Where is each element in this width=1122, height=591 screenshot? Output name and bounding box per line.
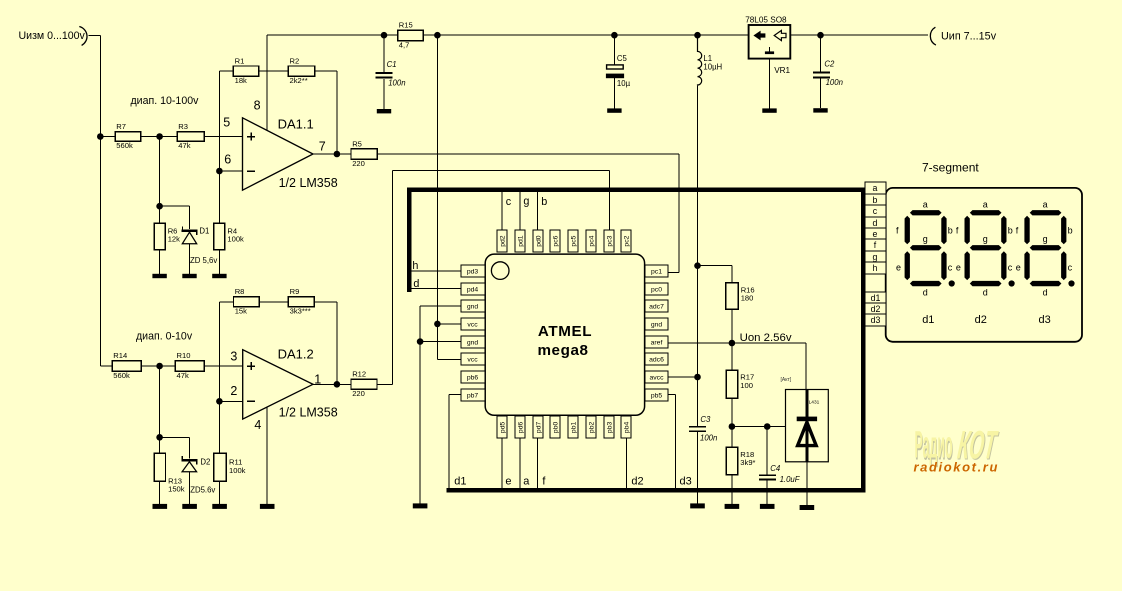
display pin f [865, 239, 886, 251]
svg-text:100: 100 [740, 381, 753, 390]
resistor R1 [233, 56, 258, 85]
svg-text:mega8: mega8 [537, 342, 588, 359]
svg-text:3: 3 [230, 350, 237, 364]
svg-text:d: d [983, 287, 988, 297]
op-amp DA1.2 [230, 347, 337, 432]
pin pc4 top [586, 230, 596, 252]
svg-text:10µH: 10µH [703, 62, 722, 71]
ground C4 [760, 504, 775, 509]
svg-text:h: h [873, 263, 878, 273]
svg-text:c: c [948, 262, 953, 272]
display pin d [865, 217, 886, 228]
node C5 junction [611, 32, 618, 39]
wire C2 stem [820, 35, 822, 108]
svg-text:d: d [873, 218, 878, 228]
node DA1.2 output junction [334, 381, 341, 388]
wire pd4 to bus [412, 288, 462, 290]
wire VR1 ground lead [769, 59, 771, 109]
svg-text:150k: 150k [168, 485, 185, 494]
label f [542, 475, 546, 487]
svg-text:pc1: pc1 [651, 269, 662, 276]
svg-text:100k: 100k [227, 235, 244, 244]
wire DA1.1 output [313, 153, 351, 155]
svg-text:adc7: adc7 [649, 304, 664, 311]
wire C4 stem [766, 427, 768, 504]
wire input to corner [88, 35, 100, 37]
connector Uip supply [930, 27, 996, 45]
wire DA1.2 pin4 ground lead [266, 407, 268, 504]
label Uon 2.56v [740, 332, 792, 344]
svg-text:ZD 5,6v: ZD 5,6v [190, 256, 217, 265]
wire R4 riser [218, 171, 220, 223]
watermark radiokot.ru [914, 460, 1000, 475]
svg-text:C5: C5 [617, 54, 628, 63]
svg-text:C4: C4 [770, 464, 781, 473]
svg-text:g: g [983, 234, 988, 244]
svg-text:pb0: pb0 [552, 422, 559, 434]
svg-text:d3: d3 [871, 315, 881, 325]
regulator VR1 78L05 [745, 15, 790, 75]
svg-text:R5: R5 [352, 139, 362, 148]
pin pc1 right [645, 265, 668, 277]
node C2 junction [817, 32, 824, 39]
svg-text:radiokot.ru: radiokot.ru [914, 460, 1000, 475]
ground R18 [725, 504, 740, 509]
wire ref to TL431 [732, 426, 786, 428]
pin vcc left [461, 318, 485, 330]
svg-text:d2: d2 [975, 314, 987, 326]
node input/R7 junction [97, 133, 104, 140]
resistor R7 [115, 122, 141, 150]
wire R8-R9 [259, 301, 288, 303]
pin pc6 top [550, 230, 560, 252]
display pin g [865, 251, 886, 262]
svg-text:R3: R3 [178, 122, 188, 131]
node R14/R10 junction [156, 363, 163, 370]
svg-text:pc5: pc5 [570, 235, 577, 246]
node R15 right junction [434, 32, 441, 39]
svg-text:100n: 100n [700, 434, 717, 443]
svg-text:g: g [523, 195, 529, 207]
svg-text:pd7: pd7 [535, 422, 542, 434]
svg-text:15k: 15k [235, 307, 247, 316]
svg-text:a: a [983, 199, 988, 209]
wire R6 to ground [159, 250, 161, 274]
svg-text:180: 180 [741, 294, 754, 303]
label d3 [680, 475, 692, 487]
wire D1 to ground [189, 244, 191, 274]
pin pb4 bottom [621, 416, 631, 438]
svg-text:DA1.2: DA1.2 [278, 347, 314, 362]
display digit labels [922, 314, 1051, 326]
bus bottom [447, 488, 866, 493]
wire R8 left leg [219, 302, 233, 402]
svg-text:pd6: pd6 [517, 422, 524, 434]
svg-text:220: 220 [352, 159, 365, 168]
wire R14 row [141, 365, 243, 367]
wire to D1 [160, 206, 190, 229]
svg-text:Uon 2.56v: Uon 2.56v [740, 332, 792, 344]
svg-text:R1: R1 [235, 56, 245, 65]
svg-text:1.0uF: 1.0uF [780, 475, 801, 484]
wire R4 to ground [218, 250, 220, 274]
wire aref to Uon [668, 342, 732, 344]
wire to R16 [698, 266, 732, 283]
resistor R8 [234, 287, 260, 316]
svg-text:e: e [1016, 262, 1021, 272]
wire R9 to output [314, 302, 337, 385]
pin pb6 left [461, 371, 485, 383]
svg-text:pc4: pc4 [588, 235, 595, 246]
svg-text:220: 220 [352, 389, 365, 398]
wire segment c to pd2 [501, 192, 503, 230]
svg-text:C3: C3 [700, 415, 711, 424]
resistor R5 [351, 139, 377, 168]
svg-text:3k9*: 3k9* [740, 458, 755, 467]
svg-text:c: c [1068, 262, 1073, 272]
svg-text:D1: D1 [199, 226, 209, 235]
display pin a [865, 182, 886, 194]
label h [412, 260, 418, 272]
svg-text:R9: R9 [290, 287, 300, 296]
node R6/D1 junction [156, 203, 163, 210]
node DA1.1 pin6 junction [216, 168, 223, 175]
node DA1.2 pin2 junction [216, 398, 223, 405]
svg-text:C2: C2 [824, 60, 835, 69]
svg-text:pc3: pc3 [606, 235, 613, 246]
wire R17 to R18 [731, 398, 733, 447]
ground R4 [212, 274, 226, 278]
wire R18 to ground [731, 475, 733, 504]
svg-text:pd0: pd0 [535, 235, 542, 247]
wire 5V rail left section [267, 34, 749, 36]
label b [541, 196, 547, 208]
resistor R4 [214, 223, 244, 250]
svg-text:d1: d1 [922, 314, 934, 326]
svg-text:47k: 47k [177, 371, 189, 380]
svg-text:R15: R15 [399, 21, 413, 30]
node L1 junction [694, 32, 701, 39]
svg-text:pc0: pc0 [651, 287, 662, 294]
svg-text:gnd: gnd [467, 340, 479, 347]
svg-text:pd3: pd3 [467, 269, 479, 276]
svg-text:d3: d3 [680, 475, 692, 487]
pin pc0 right [645, 283, 668, 295]
svg-text:b: b [948, 226, 953, 236]
wire segment g to pd1 [519, 192, 521, 230]
svg-text:pd5: pd5 [499, 422, 506, 434]
pin pd6 bottom [515, 416, 525, 438]
svg-text:d: d [1043, 287, 1048, 297]
svg-text:pb1: pb1 [570, 422, 577, 434]
pin pb3 bottom [604, 416, 614, 438]
svg-text:adc6: adc6 [649, 357, 664, 364]
resistor R13 [154, 453, 185, 494]
ground C3 [690, 503, 705, 508]
svg-text:pb4: pb4 [623, 422, 630, 434]
svg-text:g: g [923, 234, 928, 244]
wire R11 riser [218, 401, 220, 453]
pin pd2 top [497, 230, 507, 252]
pin adc6 right [645, 353, 668, 365]
svg-text:18k: 18k [235, 76, 247, 85]
wire pb5 digit3 [668, 395, 675, 490]
node R7/R3 junction [156, 133, 163, 140]
wire to D2 [160, 437, 190, 458]
wire segment b to pd0 [537, 192, 539, 230]
wire R5 to pc1 [377, 154, 679, 273]
svg-text:pc2: pc2 [623, 235, 630, 246]
pin avcc right [645, 371, 668, 383]
svg-text:8: 8 [254, 98, 261, 112]
label d [413, 278, 419, 290]
svg-text:R2: R2 [290, 56, 300, 65]
wire Uon to TL431 [732, 343, 806, 390]
resistor R16 [726, 283, 755, 310]
ground C1 [377, 109, 391, 113]
wire R2 to output [315, 71, 337, 154]
bus left bracket [407, 187, 412, 292]
svg-text:gnd: gnd [467, 304, 479, 311]
display digit 2 [956, 199, 1015, 297]
ground VR1 [762, 108, 776, 112]
bus right vertical [861, 187, 866, 492]
svg-text:Uизм 0...100v: Uизм 0...100v [19, 30, 86, 42]
svg-text:2: 2 [230, 384, 237, 398]
wire R16 to Uon [731, 309, 733, 370]
svg-text:c: c [506, 196, 512, 208]
svg-text:7: 7 [319, 139, 326, 153]
svg-text:b: b [541, 196, 547, 208]
svg-text:pb6: pb6 [467, 375, 479, 382]
wire pd5 digit e [501, 438, 503, 490]
display pin d3 [865, 314, 886, 326]
capacitor C5 [606, 54, 631, 88]
svg-text:h: h [412, 260, 418, 272]
zener D1 [182, 226, 218, 265]
pin pd7 bottom [533, 416, 543, 438]
wire C5 stem [613, 35, 615, 108]
node DA1.1 output junction [334, 151, 341, 158]
pin gnd left [461, 300, 485, 312]
svg-text:d1: d1 [454, 475, 466, 487]
wire avcc to L1 line [668, 376, 697, 378]
svg-text:pd2: pd2 [499, 235, 506, 247]
wire input vertical [99, 36, 101, 366]
pin pc3 top [604, 230, 614, 252]
wire DA1.1 pin8 riser [266, 35, 268, 130]
ground D1 [182, 274, 196, 278]
svg-text:R14: R14 [113, 351, 127, 360]
ground R13 [153, 504, 168, 509]
svg-text:aref: aref [651, 340, 663, 347]
svg-text:pd4: pd4 [467, 287, 479, 294]
pin pc2 top [621, 230, 631, 252]
pin pd3 left [461, 265, 485, 277]
svg-text:e: e [873, 229, 878, 239]
svg-text:100n: 100n [388, 79, 405, 88]
label range 10-100v [131, 95, 200, 107]
label d1 [454, 475, 466, 487]
label e [505, 475, 511, 487]
svg-text:диап. 10-100v: диап. 10-100v [131, 95, 200, 107]
svg-text:avcc: avcc [650, 375, 665, 382]
wire R11 to ground [218, 481, 220, 504]
node R13/D2 junction [156, 434, 163, 441]
resistor R11 [214, 453, 246, 481]
label a [523, 475, 530, 487]
svg-text:3k3***: 3k3*** [290, 307, 311, 316]
svg-text:vcc: vcc [467, 322, 478, 329]
pin gnd left [461, 336, 485, 348]
pin pb1 bottom [568, 416, 578, 438]
svg-text:1/2 LM358: 1/2 LM358 [279, 176, 338, 190]
ground C5 [607, 108, 621, 112]
svg-text:560k: 560k [116, 141, 133, 150]
node C1 junction [381, 32, 388, 39]
svg-text:ZD5.6v: ZD5.6v [190, 485, 215, 494]
svg-text:a: a [1043, 199, 1048, 209]
pin pb0 bottom [550, 416, 560, 438]
label c [506, 196, 512, 208]
svg-text:d3: d3 [1039, 314, 1051, 326]
svg-text:a: a [873, 183, 878, 193]
svg-text:g: g [873, 252, 878, 262]
svg-text:4,7: 4,7 [399, 41, 410, 50]
pin pd0 top [533, 230, 543, 252]
svg-text:диап. 0-10v: диап. 0-10v [136, 330, 193, 342]
wire vcc riser [437, 35, 461, 359]
svg-text:10µ: 10µ [617, 79, 631, 88]
svg-text:pd1: pd1 [517, 235, 524, 247]
wire R13 to ground [159, 481, 161, 504]
node R17/R18 junction [729, 423, 736, 430]
ground C2 [813, 108, 827, 112]
svg-text:47k: 47k [178, 141, 190, 150]
wire R7 row [100, 136, 242, 138]
resistor R10 [175, 351, 204, 380]
svg-text:1/2 LM358: 1/2 LM358 [279, 405, 338, 419]
pin pb7 left [461, 389, 485, 401]
wire C3 to ground [697, 431, 699, 503]
wire input to R14 [100, 365, 112, 367]
resistor R17 [726, 370, 754, 398]
wire pb7 digit1 [449, 395, 462, 490]
IC U1 ATmega8 body [485, 254, 644, 415]
wire pd7 digit f [537, 438, 539, 490]
node Uon junction [729, 340, 736, 347]
svg-text:R10: R10 [177, 351, 191, 360]
svg-text:vcc: vcc [467, 357, 478, 364]
label g [523, 195, 529, 207]
wire pb4 digit2 [625, 438, 627, 490]
svg-text:[Акт]: [Акт] [781, 377, 792, 383]
svg-text:100n: 100n [826, 78, 843, 87]
pin gnd right [645, 318, 668, 330]
pin pd4 left [461, 283, 485, 295]
svg-text:e: e [505, 475, 511, 487]
svg-text:12k: 12k [168, 235, 180, 244]
bus segment top [407, 187, 865, 192]
node C4 junction [764, 423, 771, 430]
svg-text:ATMEL: ATMEL [538, 323, 592, 340]
svg-text:560k: 560k [113, 371, 130, 380]
svg-text:R7: R7 [116, 122, 126, 131]
svg-text:d: d [923, 287, 928, 297]
pin adc7 right [645, 300, 668, 312]
svg-text:100k: 100k [229, 466, 246, 475]
wire DA1.1 minus input [219, 170, 242, 172]
svg-text:d2: d2 [631, 475, 643, 487]
resistor R18 [726, 447, 755, 474]
display pin d2 [865, 303, 886, 314]
pin vcc left [461, 353, 485, 365]
wire R6 branch [159, 137, 161, 224]
svg-text:6: 6 [224, 152, 231, 166]
wire pd6 digit a [519, 438, 521, 490]
resistor R9 [288, 287, 314, 316]
wire R1-R2 [259, 70, 289, 72]
zener D2 [181, 456, 215, 494]
svg-text:pb3: pb3 [606, 422, 613, 434]
svg-text:R12: R12 [352, 370, 366, 379]
svg-text:2k2**: 2k2** [290, 76, 308, 85]
display pin d1 [865, 292, 886, 303]
svg-text:b: b [1008, 226, 1013, 236]
ground R11 [212, 504, 227, 509]
watermark RadioKOT logo [915, 422, 1002, 469]
label d2 [631, 475, 643, 487]
ground MCU gnd riser [413, 503, 428, 508]
display pin b [865, 194, 886, 205]
label Akt tiny [781, 377, 792, 383]
svg-text:e: e [896, 262, 901, 272]
svg-text:e: e [956, 262, 961, 272]
display pin c [865, 205, 886, 217]
wire R12 to pc3 [377, 171, 610, 385]
svg-text:d1: d1 [871, 293, 881, 303]
label range 0-10v [136, 330, 193, 342]
svg-text:4: 4 [254, 418, 261, 432]
node vcc junction [434, 321, 441, 328]
svg-text:d: d [413, 278, 419, 290]
capacitor C3 [689, 415, 717, 443]
pin aref right [645, 336, 668, 348]
resistor R3 [177, 122, 204, 150]
svg-text:R8: R8 [235, 287, 245, 296]
display pin h [865, 262, 886, 274]
connector Uizm input [19, 27, 88, 46]
svg-text:gnd: gnd [651, 322, 663, 329]
resistor R2 [288, 56, 314, 85]
ground D2 [182, 504, 197, 509]
wire L1 down to AVCC/C3 [697, 85, 699, 427]
wire C1 stem [383, 35, 385, 109]
display module body [886, 188, 1082, 342]
svg-text:c: c [1008, 262, 1013, 272]
pin pb5 right [645, 389, 668, 401]
ground DA1.2 pin4 [260, 504, 275, 509]
svg-text:Uип 7...15v: Uип 7...15v [941, 31, 997, 43]
svg-text:a: a [523, 475, 530, 487]
pin pd1 top [515, 230, 525, 252]
IC TL431 [786, 390, 829, 462]
display pin e [865, 228, 886, 239]
svg-text:5: 5 [223, 116, 230, 130]
svg-text:b: b [873, 195, 878, 205]
svg-text:d2: d2 [871, 304, 881, 314]
svg-text:pb7: pb7 [467, 393, 479, 400]
